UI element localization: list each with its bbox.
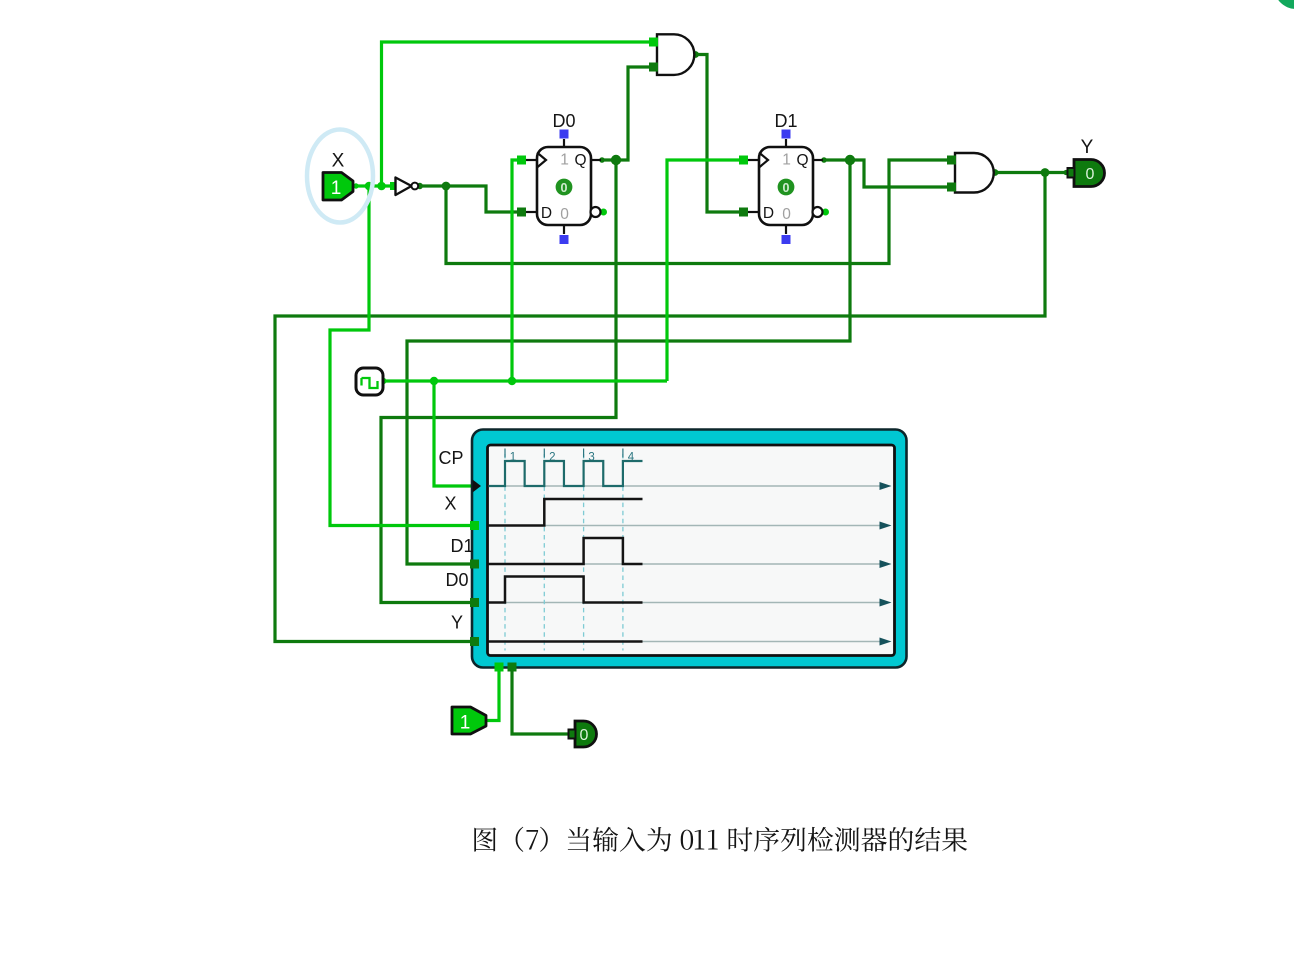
scope tick mark 1 bbox=[504, 449, 506, 458]
svg-text:D1: D1 bbox=[450, 536, 473, 556]
clock triangle of D1 bbox=[759, 153, 768, 168]
scope dashed gridline 4 bbox=[622, 454, 624, 651]
svg-text:Y: Y bbox=[451, 613, 463, 633]
svg-text:0: 0 bbox=[1086, 166, 1095, 183]
scope Y input pin bbox=[470, 637, 479, 646]
svg-text:CP: CP bbox=[438, 448, 463, 468]
D pin square D1 bbox=[739, 208, 748, 217]
scope CP input arrow bbox=[473, 480, 482, 493]
D flip-flop D1 body bbox=[759, 147, 813, 225]
clear pin blue square D0 bbox=[560, 235, 569, 244]
node D0 notQ pin bbox=[600, 209, 607, 216]
oscilloscope inner screen bbox=[488, 445, 895, 656]
node junction clock-D0 bbox=[508, 377, 516, 385]
node junction X-a bbox=[365, 182, 374, 191]
scope row arrowhead 0 bbox=[880, 482, 892, 490]
scope row arrowhead 4 bbox=[880, 638, 892, 646]
D flip-flop D0 body bbox=[537, 147, 591, 225]
scope dashed gridline 1 bbox=[504, 454, 506, 651]
svg-text:D0: D0 bbox=[445, 570, 468, 590]
clock waveform glyph bbox=[362, 378, 378, 388]
pin stub Q D1 bbox=[813, 159, 823, 161]
node AND1 output pin bbox=[692, 51, 699, 58]
wire Q1 to AND2 input B bbox=[824, 160, 948, 187]
clear pin blue square D1 bbox=[782, 235, 791, 244]
wire scope enable to input 1 box bbox=[486, 667, 499, 721]
wire NOT output to D0 D input bbox=[420, 186, 518, 212]
preset pin blue square D0 bbox=[560, 130, 569, 139]
caption text: 图（7）当输入为 011 时序列检测器的结果 bbox=[474, 827, 967, 852]
notQ bubble D0 bbox=[591, 207, 601, 217]
state circle of D1 bbox=[778, 179, 795, 196]
waveform X bbox=[489, 499, 643, 526]
svg-text:0: 0 bbox=[782, 206, 791, 223]
waveform CP bbox=[489, 461, 643, 486]
AND1 input A pin square bbox=[649, 38, 658, 47]
AND2 input B pin square bbox=[947, 183, 956, 192]
preset stub D1 bbox=[785, 139, 787, 147]
pin stub D D0 bbox=[525, 211, 537, 213]
node junction Q1 bbox=[845, 155, 855, 165]
svg-text:0: 0 bbox=[783, 181, 790, 195]
scope row baseline 4 bbox=[489, 641, 881, 643]
pin stub clk D1 bbox=[747, 159, 759, 161]
svg-text:D0: D0 bbox=[552, 111, 575, 131]
node clock output pin bbox=[380, 378, 387, 385]
svg-text:1: 1 bbox=[460, 713, 471, 734]
svg-text:D: D bbox=[763, 205, 774, 222]
wire clock branch down to scope CP bbox=[434, 381, 473, 486]
node junction X-bar bbox=[442, 182, 451, 191]
wire Q0 down to scope D0 row bbox=[381, 160, 616, 603]
notQ bubble D1 bbox=[813, 207, 823, 217]
scope row baseline 3 bbox=[489, 602, 881, 604]
svg-text:Y: Y bbox=[1081, 137, 1094, 158]
AND gate U2 (top) bbox=[657, 34, 694, 75]
svg-text:Q: Q bbox=[796, 152, 808, 169]
clear stub D0 bbox=[563, 225, 565, 234]
pin stub Q D0 bbox=[591, 159, 601, 161]
NOT input pin square bbox=[390, 182, 398, 190]
scope row baseline 0 bbox=[489, 485, 881, 487]
svg-text:0: 0 bbox=[561, 181, 568, 195]
scope enable bottom pin bbox=[495, 663, 504, 672]
wire X node down to scope X row bbox=[330, 186, 471, 526]
waveform Y flat bbox=[489, 640, 643, 643]
scope row baseline 2 bbox=[489, 563, 881, 565]
AND gate U3 (right) bbox=[955, 153, 994, 193]
wire X node up to AND1 input A bbox=[382, 42, 651, 186]
waveform D0 bbox=[489, 577, 643, 603]
preset stub D0 bbox=[563, 139, 565, 147]
svg-text:D: D bbox=[541, 205, 552, 222]
clear stub D1 bbox=[785, 225, 787, 234]
scope tick mark 4 bbox=[622, 449, 624, 458]
node Y pin contact bbox=[1063, 170, 1068, 175]
svg-text:X: X bbox=[444, 494, 456, 514]
scope dashed gridline 3 bbox=[583, 454, 585, 651]
scope row baseline 1 bbox=[489, 525, 881, 527]
clock generator body bbox=[356, 368, 383, 395]
pin stub D D1 bbox=[747, 211, 759, 213]
wire Q1 down to scope D1 row bbox=[407, 160, 850, 564]
wire AND2 output to Y pin bbox=[995, 171, 1066, 174]
scope clear bottom pin bbox=[508, 663, 517, 672]
AND1 input B pin square bbox=[649, 63, 658, 72]
clock triangle of D0 bbox=[537, 153, 546, 168]
node Q1 pin bbox=[821, 157, 827, 163]
scope dashed gridline 2 bbox=[543, 454, 545, 651]
output pin 0 bottom bbox=[575, 721, 597, 747]
clk pin square D1 bbox=[739, 156, 748, 165]
node D1 notQ pin bbox=[822, 209, 829, 216]
node Q0 pin bbox=[599, 157, 605, 163]
wire Q0 to AND1 input B bbox=[602, 67, 650, 160]
wire X-bar long run to AND2 input A bbox=[446, 160, 948, 264]
svg-text:1: 1 bbox=[782, 152, 791, 169]
scope D0 input pin bbox=[470, 598, 479, 607]
svg-text:1: 1 bbox=[331, 178, 342, 199]
wire Y down long run to scope Y row bbox=[275, 173, 1045, 642]
selection halo around X input bbox=[307, 130, 373, 223]
waveform D1 bbox=[489, 538, 643, 564]
node NOT gate output bbox=[417, 183, 423, 189]
svg-text:0: 0 bbox=[560, 206, 569, 223]
svg-text:1: 1 bbox=[560, 152, 569, 169]
wire X output to NOT input bbox=[353, 184, 397, 187]
AND2 input A pin square bbox=[947, 156, 956, 165]
node junction X-b bbox=[377, 182, 386, 191]
node X output pin bbox=[353, 183, 358, 188]
svg-text:0: 0 bbox=[580, 727, 589, 744]
pin stub clk D0 bbox=[525, 159, 537, 161]
D pin square D0 bbox=[517, 208, 526, 217]
preset pin blue square D1 bbox=[782, 130, 791, 139]
oscilloscope outer frame bbox=[472, 430, 907, 668]
wire clock output horizontal bbox=[383, 379, 667, 382]
wire clock branch up to D1 clock pin bbox=[667, 160, 740, 381]
scope row arrowhead 3 bbox=[880, 599, 892, 607]
node junction Q0 bbox=[611, 155, 621, 165]
node AND2 output pin bbox=[992, 169, 999, 176]
NOT gate U1 bbox=[396, 178, 412, 196]
clk pin square D0 bbox=[517, 156, 526, 165]
scope row arrowhead 2 bbox=[880, 560, 892, 568]
node junction clock-CP bbox=[430, 377, 438, 385]
scope X input pin bbox=[470, 521, 479, 530]
input pin X (value 1) bbox=[323, 173, 353, 201]
node junction Y bbox=[1041, 168, 1050, 177]
svg-text:D1: D1 bbox=[774, 111, 797, 131]
input pin constant 1 bbox=[452, 707, 486, 734]
state circle of D0 bbox=[556, 179, 573, 196]
svg-text:Q: Q bbox=[574, 152, 586, 169]
green corner blob bbox=[1274, 0, 1294, 9]
scope tick mark 3 bbox=[583, 449, 585, 458]
output pin Y (value 0) bbox=[1074, 160, 1105, 187]
scope row arrowhead 1 bbox=[880, 522, 892, 530]
wire AND1 output to D1 D input bbox=[696, 55, 741, 213]
wire scope clear to output 0 box bbox=[512, 667, 569, 734]
svg-text:X: X bbox=[332, 151, 345, 172]
scope tick mark 2 bbox=[543, 449, 545, 458]
wire clock branch up to D0 clock pin bbox=[512, 160, 518, 381]
scope D1 input pin bbox=[470, 560, 479, 569]
